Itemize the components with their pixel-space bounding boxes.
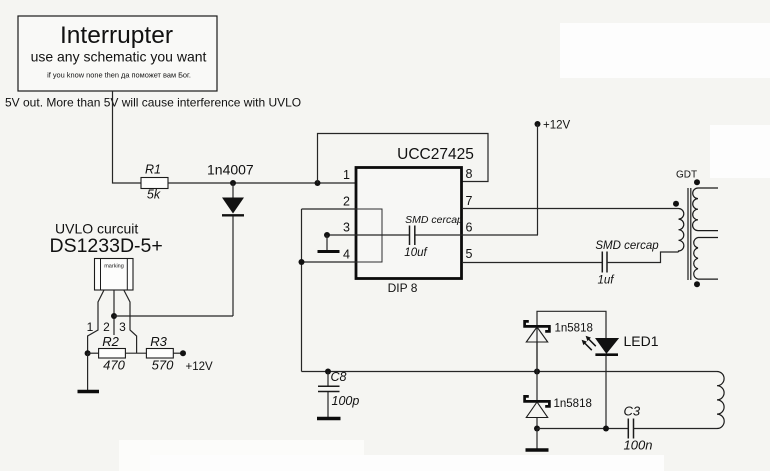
svg-text:R3: R3: [150, 334, 167, 349]
diode D1 1n4007: [207, 162, 254, 317]
resistor R2: [88, 334, 126, 373]
svg-text:1: 1: [87, 320, 94, 334]
secondary winding bottom: [694, 238, 718, 280]
capacitor C3 100n: [624, 404, 653, 453]
transformer GDT: [673, 170, 718, 288]
bottom wire to C3: [537, 428, 628, 430]
svg-text:if you know none then да помож: if you know none then да поможет вам Бог…: [47, 71, 191, 80]
DS1233 package: [95, 259, 134, 291]
wire pin2 to 1n4007: [114, 315, 233, 317]
svg-text:5: 5: [466, 247, 473, 261]
svg-text:1n5818: 1n5818: [554, 398, 592, 410]
svg-text:10uf: 10uf: [404, 247, 428, 259]
node schottky chain top rail: [534, 369, 540, 375]
svg-text:Interrupter: Interrupter: [60, 22, 173, 49]
svg-text:5V out. More than 5V will caus: 5V out. More than 5V will cause interfer…: [5, 96, 301, 110]
svg-text:R1: R1: [145, 163, 161, 177]
capacitor 1uf SMD cercap: [595, 240, 659, 287]
note box "Interrupter": [18, 16, 217, 91]
svg-text:2: 2: [343, 195, 350, 209]
svg-text:+12V: +12V: [543, 120, 571, 132]
resistor R3: [146, 334, 174, 373]
inner loop rect pins 2-4: [356, 209, 382, 262]
wire from box bottom down and right to R1: [113, 91, 142, 183]
node bottom-left of D3: [534, 426, 540, 432]
svg-text:DIP 8: DIP 8: [388, 281, 418, 295]
leg pin1: [88, 290, 104, 353]
IC U1 UCC27425 gate driver: [356, 146, 474, 295]
inductor load coil right: [717, 372, 724, 429]
svg-text:6: 6: [466, 221, 473, 235]
node pin1 / loop: [315, 180, 321, 186]
svg-text:3: 3: [343, 221, 350, 235]
wire C3 to coil: [634, 428, 718, 430]
svg-text:8: 8: [466, 167, 473, 181]
svg-text:C3: C3: [624, 404, 641, 419]
+12V supply top: [535, 120, 571, 236]
node R2 left: [85, 350, 91, 356]
primary coil: [679, 209, 684, 253]
svg-text:1: 1: [343, 168, 350, 182]
svg-text:470: 470: [103, 358, 125, 373]
wire pin2 to left rail: [302, 208, 357, 210]
node pin4: [299, 259, 305, 265]
schottky diode 1n5818 bottom: [525, 372, 592, 429]
wire top of diode pair to LED: [537, 311, 606, 371]
svg-text:1uf: 1uf: [598, 275, 616, 287]
svg-text:R2: R2: [102, 334, 119, 349]
svg-text:LED1: LED1: [624, 333, 659, 349]
wire pin4: [302, 261, 357, 263]
UVLO circuit DS1233: [50, 221, 163, 258]
svg-text:2: 2: [103, 320, 110, 334]
capacitor C8 100p: [318, 370, 359, 418]
wire loop pin1 to pin8 over top: [318, 134, 489, 184]
primary phase dot: [673, 201, 679, 207]
wire R1 to pin1 of U1: [168, 182, 356, 184]
svg-text:use any schematic you want: use any schematic you want: [31, 49, 207, 65]
secondary phase dot bottom: [694, 281, 700, 287]
wire pin3 through U1 to pin6: [327, 234, 538, 236]
svg-text:100p: 100p: [332, 394, 360, 408]
ground at pin3: [318, 235, 340, 252]
secondary winding top: [693, 188, 718, 231]
schottky diode 1n5818 top: [525, 321, 593, 371]
svg-text:UCC27425: UCC27425: [397, 146, 474, 163]
node pin3 ground: [324, 232, 330, 238]
left rail pin2-pin4 down to bottom rail: [301, 209, 303, 372]
svg-text:GDT: GDT: [676, 170, 697, 181]
svg-text:1n5818: 1n5818: [555, 323, 593, 335]
secondary phase dot top: [694, 179, 700, 185]
ground under C8: [317, 417, 341, 420]
svg-text:3: 3: [119, 320, 126, 334]
svg-text:marking: marking: [104, 264, 124, 270]
leg pin2: [113, 290, 115, 335]
svg-text:1n4007: 1n4007: [207, 162, 254, 178]
svg-text:570: 570: [152, 358, 174, 373]
svg-text:SMD cercap: SMD cercap: [595, 240, 659, 252]
wire R2-R3: [125, 352, 146, 354]
emission arrows: [585, 339, 596, 350]
bottom rail wire: [302, 371, 718, 373]
svg-text:100n: 100n: [624, 438, 653, 453]
LED LED1: [582, 333, 659, 429]
ground under R2 node: [78, 353, 100, 391]
node LED bottom: [603, 426, 609, 432]
node at diode top: [230, 180, 236, 186]
node pin2: [111, 313, 117, 319]
node C8: [325, 369, 331, 375]
leg pin3: [124, 290, 137, 353]
svg-text:DS1233D-5+: DS1233D-5+: [50, 235, 163, 257]
svg-text:+12V: +12V: [186, 361, 214, 373]
svg-text:SMD cercap: SMD cercap: [405, 214, 463, 226]
wire 1uf to GDT primary bottom: [607, 252, 679, 263]
ground under D3: [526, 429, 549, 451]
wire pin7 to GDT primary: [462, 208, 679, 210]
svg-text:4: 4: [343, 248, 350, 262]
svg-text:5k: 5k: [147, 188, 161, 202]
svg-text:7: 7: [466, 194, 473, 208]
resistor R1: [141, 163, 168, 202]
svg-text:C8: C8: [331, 370, 347, 384]
capacitor 10uf SMD cercap inside: [404, 214, 463, 259]
wire R3 to +12V: [173, 352, 183, 354]
node +12V: [180, 350, 186, 356]
core: [688, 188, 691, 280]
wire pin5 to 1uf cap: [462, 262, 602, 264]
